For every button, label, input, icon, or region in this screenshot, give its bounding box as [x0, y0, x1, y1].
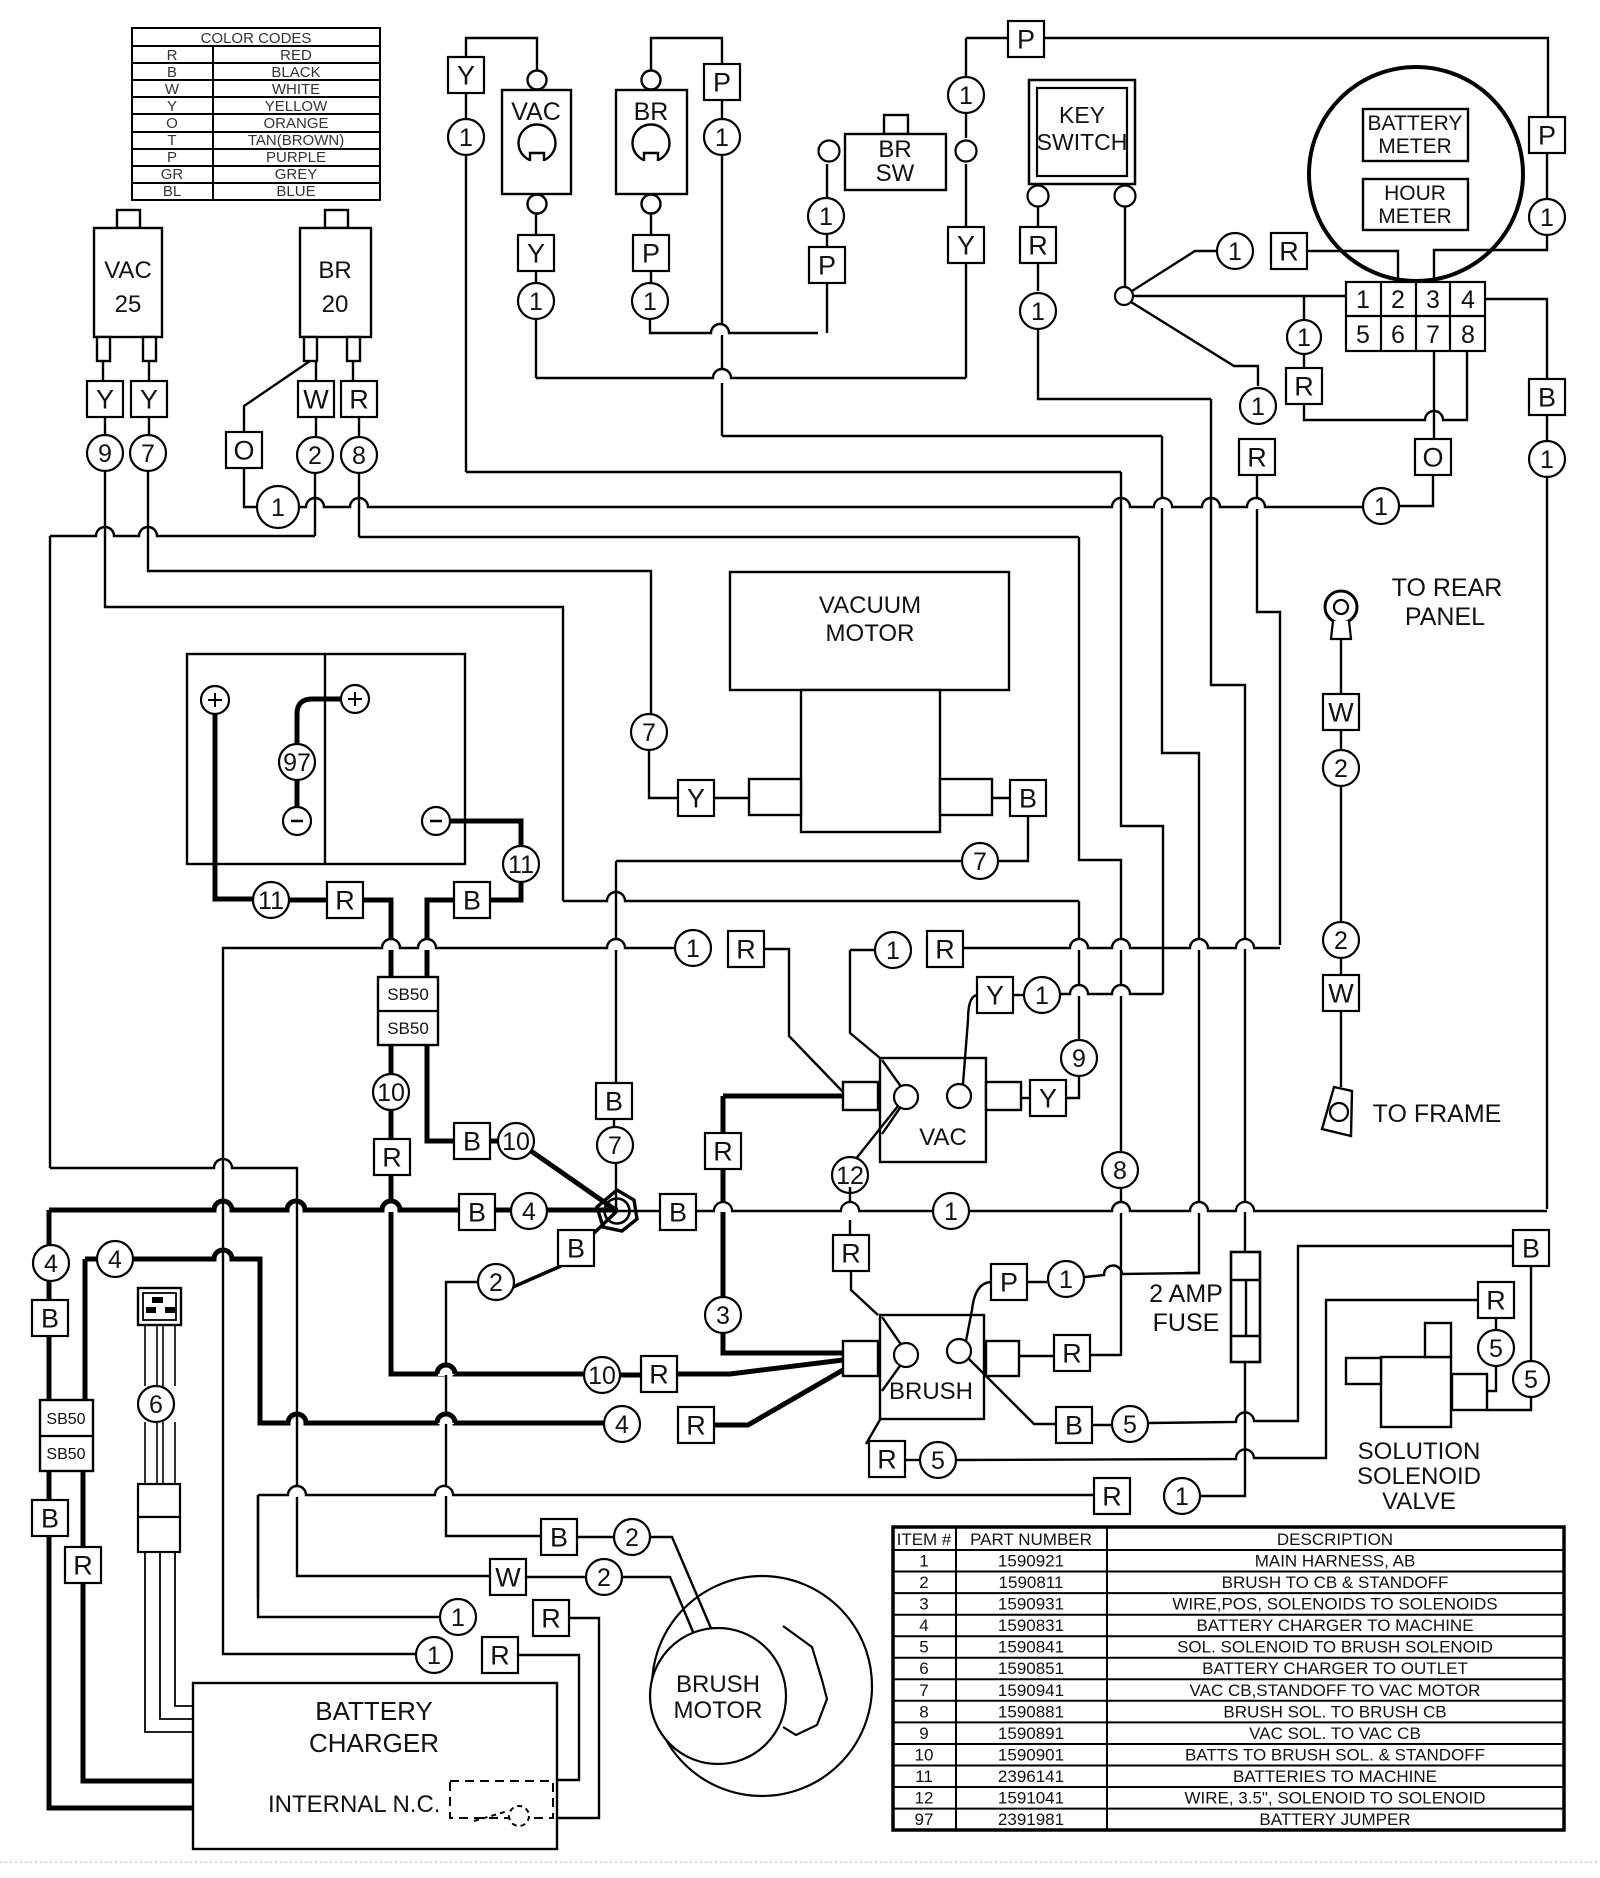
svg-text:Y: Y	[140, 384, 158, 414]
svg-text:BR: BR	[878, 136, 911, 163]
wire y378 vac rocker to y chain	[536, 369, 966, 378]
wire battery2 - right	[450, 821, 521, 846]
svg-text:Y: Y	[96, 384, 114, 414]
wire corner to vac box	[850, 950, 880, 1058]
wire W chain left vertical	[49, 536, 51, 1168]
svg-text:1: 1	[459, 124, 473, 152]
label B solution	[1513, 1230, 1549, 1266]
svg-text:MOTOR: MOTOR	[826, 620, 915, 647]
wire contact to B	[968, 1358, 1057, 1424]
label B left of node	[459, 1194, 495, 1230]
svg-text:1590941: 1590941	[998, 1681, 1064, 1700]
vac solenoid left flange	[843, 1082, 878, 1110]
svg-text:BRUSH: BRUSH	[889, 1378, 973, 1405]
svg-text:1: 1	[1540, 204, 1554, 232]
svg-text:BLACK: BLACK	[271, 64, 320, 81]
svg-text:B: B	[463, 1126, 481, 1156]
wire marker 8	[341, 437, 377, 473]
battery box	[187, 654, 465, 864]
svg-text:BRUSH SOL. TO BRUSH CB: BRUSH SOL. TO BRUSH CB	[1223, 1702, 1446, 1721]
node stud junction	[597, 1190, 637, 1231]
svg-text:1590931: 1590931	[998, 1595, 1064, 1614]
svg-text:1: 1	[1374, 493, 1388, 521]
svg-text:1590901: 1590901	[998, 1746, 1064, 1765]
svg-text:PART NUMBER: PART NUMBER	[970, 1530, 1092, 1549]
svg-text:B: B	[41, 1503, 59, 1533]
svg-text:1: 1	[886, 937, 900, 965]
svg-text:B: B	[468, 1197, 486, 1227]
svg-text:10: 10	[915, 1746, 934, 1765]
brush solenoid triangle lines	[882, 1317, 902, 1391]
vacuum motor box	[730, 572, 1009, 690]
wire	[826, 234, 828, 248]
svg-text:11: 11	[915, 1767, 933, 1786]
svg-text:COLOR CODES: COLOR CODES	[201, 30, 312, 47]
svg-text:2: 2	[489, 1269, 503, 1297]
wire marker 1	[257, 486, 299, 528]
svg-text:P: P	[713, 67, 731, 97]
svg-text:BL: BL	[163, 183, 181, 200]
wire marker 5	[1478, 1330, 1514, 1366]
charger cable	[144, 1325, 146, 1386]
svg-text:25: 25	[115, 291, 142, 318]
wire node to connector pin1	[1133, 295, 1346, 297]
wire	[714, 797, 749, 799]
wire marker 5	[1513, 1361, 1549, 1397]
svg-text:SB50: SB50	[46, 1411, 85, 1428]
wire thin bus y948 left	[225, 939, 675, 948]
svg-text:2: 2	[1391, 286, 1405, 314]
wire	[1027, 1281, 1047, 1283]
svg-text:W: W	[303, 384, 329, 414]
wire	[965, 113, 967, 138]
svg-text:W: W	[495, 1562, 521, 1592]
svg-text:1: 1	[715, 124, 729, 152]
wire Y chain y472	[466, 471, 1121, 473]
wire SB50 right leg up	[83, 1259, 88, 1400]
svg-text:10: 10	[502, 1128, 530, 1156]
BR SW tab	[884, 115, 908, 134]
svg-text:2: 2	[308, 442, 322, 470]
svg-text:1: 1	[1251, 393, 1265, 421]
wire P chain cross link	[650, 319, 818, 333]
wire P chain down	[721, 155, 723, 373]
wire B to 2	[513, 1266, 561, 1287]
label W	[1323, 694, 1359, 730]
svg-text:8: 8	[1113, 1157, 1127, 1185]
wire cable to charger	[145, 1552, 193, 1732]
svg-text:12: 12	[915, 1789, 934, 1808]
battery jumper wire	[297, 699, 341, 745]
wire 2 chain	[314, 473, 316, 536]
wire marker 2	[586, 1559, 622, 1595]
svg-text:B: B	[1019, 783, 1037, 813]
label B right of node	[660, 1194, 696, 1230]
battery meter	[1363, 109, 1468, 161]
wire Y chain down	[465, 155, 467, 472]
wire	[81, 1471, 86, 1547]
vac rocker top pin	[528, 71, 547, 90]
label B	[1056, 1407, 1092, 1443]
wire	[148, 417, 150, 436]
svg-text:4: 4	[919, 1616, 928, 1635]
label R battery	[327, 882, 363, 918]
wire pin8 leg to R chain	[1304, 351, 1467, 420]
svg-text:R: R	[649, 1359, 669, 1389]
svg-text:SB50: SB50	[387, 985, 429, 1004]
BR20 left terminal	[304, 337, 317, 361]
svg-text:2396141: 2396141	[998, 1767, 1064, 1786]
svg-text:10: 10	[377, 1079, 405, 1107]
label R 5 chain	[869, 1441, 905, 1477]
svg-text:1: 1	[1175, 1483, 1189, 1511]
wire BR rocker top to P box	[651, 38, 722, 70]
svg-text:P: P	[818, 250, 836, 280]
svg-text:B: B	[1538, 382, 1556, 412]
svg-text:1: 1	[1297, 324, 1311, 352]
svg-text:RED: RED	[280, 47, 312, 64]
wire	[465, 93, 467, 119]
label W	[490, 1559, 526, 1595]
svg-text:7: 7	[1426, 321, 1440, 349]
wire thick to vac flange	[723, 1094, 843, 1099]
spade terminal to frame	[1322, 1087, 1352, 1136]
circuit breaker BR 20	[300, 228, 371, 337]
svg-text:WHITE: WHITE	[272, 81, 320, 98]
wire	[965, 263, 967, 378]
svg-text:1: 1	[271, 494, 285, 522]
label B right edge	[1529, 379, 1565, 415]
wire contact to 12	[855, 1106, 898, 1160]
wire	[257, 1616, 259, 1618]
svg-text:VAC: VAC	[919, 1124, 967, 1151]
wire SB50 right leg	[427, 1045, 455, 1141]
node key switch junction	[1115, 287, 1133, 305]
vac solenoid left contact	[894, 1085, 918, 1109]
svg-text:BATTERY JUMPER: BATTERY JUMPER	[1259, 1810, 1410, 1829]
wire B to charger	[49, 1536, 193, 1808]
parts table	[893, 1527, 1564, 1830]
svg-text:1: 1	[1059, 1266, 1073, 1294]
svg-text:R: R	[1279, 236, 1299, 266]
wire marker 5	[1112, 1406, 1148, 1442]
wire 2 diagonal into motor	[623, 1577, 701, 1651]
svg-text:5: 5	[1489, 1335, 1503, 1363]
svg-text:10: 10	[588, 1362, 616, 1390]
svg-text:8: 8	[919, 1702, 928, 1721]
ring terminal to rear panel	[1325, 591, 1357, 639]
wire marker 1	[948, 77, 984, 113]
wire	[389, 1110, 394, 1140]
wire Y box to VAC rocker top	[466, 38, 537, 70]
svg-text:8: 8	[1461, 321, 1475, 349]
key switch right pin	[1115, 186, 1136, 207]
label B	[541, 1519, 577, 1555]
svg-text:1: 1	[451, 1604, 465, 1632]
svg-text:7: 7	[642, 719, 656, 747]
brush motor	[652, 1576, 872, 1796]
svg-text:B: B	[1522, 1233, 1540, 1263]
label B	[454, 1123, 490, 1159]
wire long right vertical	[1546, 477, 1548, 1209]
wire key R to fuse drop	[1038, 329, 1211, 399]
brush solenoid right flange	[986, 1341, 1019, 1376]
svg-text:BATTERY CHARGER TO MACHINE: BATTERY CHARGER TO MACHINE	[1196, 1616, 1473, 1635]
wire marker 1	[1287, 320, 1321, 354]
wire BR20 right leg to R	[352, 361, 354, 381]
wire marker 1	[808, 198, 844, 234]
wire marker 10	[373, 1074, 409, 1110]
wire key R to fuse	[1211, 399, 1245, 1252]
svg-text:1: 1	[959, 82, 973, 110]
wire marker 2	[478, 1264, 514, 1300]
svg-text:R: R	[1062, 1338, 1082, 1368]
label P	[704, 64, 740, 100]
svg-text:BATTERY CHARGER TO OUTLET: BATTERY CHARGER TO OUTLET	[1202, 1659, 1468, 1678]
wire marker 1	[448, 119, 484, 155]
wire	[1530, 1266, 1532, 1361]
wire long R line y1495	[258, 1486, 1095, 1495]
svg-text:1: 1	[1356, 286, 1370, 314]
label R below SB50	[374, 1139, 410, 1175]
svg-text:R: R	[382, 1142, 402, 1172]
wire 9 bus	[105, 471, 563, 901]
wire	[650, 214, 652, 237]
svg-text:MOTOR: MOTOR	[674, 1697, 763, 1724]
BR20 right terminal	[347, 337, 360, 361]
svg-text:R: R	[349, 384, 369, 414]
svg-text:R: R	[713, 1136, 733, 1166]
svg-text:B: B	[167, 64, 177, 81]
wire 3 to brush flange	[723, 1333, 843, 1353]
label Y (vac cb left)	[87, 381, 123, 417]
wire	[1092, 1424, 1111, 1426]
battery charger box	[193, 1683, 557, 1849]
wire	[1303, 297, 1305, 369]
wire pin7 leg to O	[1433, 351, 1435, 440]
svg-text:1590921: 1590921	[998, 1552, 1064, 1571]
wire	[295, 780, 300, 807]
svg-text:BRUSH TO CB & STANDOFF: BRUSH TO CB & STANDOFF	[1222, 1573, 1449, 1592]
wire	[526, 1576, 585, 1578]
wire	[47, 1281, 52, 1300]
wire B down	[999, 816, 1028, 861]
svg-text:2: 2	[1334, 755, 1348, 783]
wire Y1 line	[1060, 985, 1163, 994]
svg-text:MAIN HARNESS, AB: MAIN HARNESS, AB	[1255, 1552, 1416, 1571]
svg-text:TO REAR: TO REAR	[1392, 574, 1503, 602]
svg-text:9: 9	[98, 440, 112, 468]
svg-text:1: 1	[529, 288, 543, 316]
wire down to B	[615, 861, 617, 1084]
wire P chain right vertical	[1162, 436, 1199, 1273]
wire VAC25 right leg	[148, 361, 150, 381]
svg-text:B: B	[567, 1233, 585, 1263]
svg-text:SOLUTION: SOLUTION	[1358, 1438, 1481, 1465]
label B battery	[454, 882, 490, 918]
svg-text:4: 4	[108, 1246, 122, 1274]
wire O to 1	[244, 468, 257, 507]
wire marker 1	[675, 930, 711, 966]
svg-text:METER: METER	[1378, 205, 1452, 228]
svg-text:Y: Y	[167, 98, 177, 115]
svg-text:11: 11	[258, 887, 284, 915]
svg-text:GREY: GREY	[275, 166, 318, 183]
wire 8 chain	[358, 473, 360, 537]
svg-text:7: 7	[919, 1681, 928, 1700]
svg-text:2: 2	[1334, 927, 1348, 955]
meter gauge circle	[1309, 67, 1523, 281]
wire hump patches	[1155, 497, 1171, 508]
svg-text:R: R	[1294, 371, 1314, 401]
wire marker 1	[518, 283, 554, 319]
svg-text:BATTERY: BATTERY	[315, 1696, 433, 1726]
svg-text:1: 1	[819, 203, 833, 231]
key switch	[1029, 80, 1135, 184]
label R	[1271, 233, 1307, 269]
svg-text:TO FRAME: TO FRAME	[1373, 1100, 1502, 1128]
wire main O bus y507	[299, 498, 1362, 507]
brush solenoid left contact	[894, 1343, 918, 1367]
wire marker 1	[1240, 388, 1276, 424]
solenoid VAC	[880, 1058, 986, 1162]
wire	[1546, 152, 1548, 199]
svg-text:VACUUM: VACUUM	[819, 592, 921, 619]
vac rocker bottom pin	[528, 195, 547, 214]
battery2 negative terminal	[422, 807, 450, 835]
wire y948 right segment	[963, 939, 1280, 948]
wire	[47, 1336, 52, 1400]
svg-text:7: 7	[141, 440, 155, 468]
wire marker 1	[1164, 1478, 1200, 1514]
svg-text:WIRE,POS, SOLENOIDS TO SOLENOI: WIRE,POS, SOLENOIDS TO SOLENOIDS	[1172, 1595, 1497, 1614]
wire marker 1	[1217, 233, 1253, 269]
wire W chain to W box	[50, 1159, 490, 1576]
svg-text:1: 1	[1228, 238, 1242, 266]
label R	[65, 1547, 101, 1583]
svg-text:R: R	[1028, 230, 1048, 260]
svg-text:SB50: SB50	[46, 1446, 85, 1463]
svg-text:4: 4	[44, 1250, 58, 1278]
wire 3 chain down	[721, 1096, 726, 1134]
wire main positive bus	[49, 1201, 618, 1210]
wire	[850, 949, 874, 951]
wire R chain down to y948 line	[1257, 475, 1280, 945]
wire 8 chain down	[1079, 537, 1121, 1356]
wire marker 6	[138, 1386, 174, 1422]
wire marker 9	[1061, 1040, 1097, 1076]
svg-text:R: R	[686, 1410, 706, 1440]
svg-text:P: P	[167, 149, 177, 166]
wire to node	[615, 1163, 617, 1211]
svg-text:5: 5	[931, 1447, 945, 1475]
svg-text:O: O	[166, 115, 178, 132]
wire	[1340, 1011, 1342, 1087]
wire marker 7	[597, 1127, 633, 1163]
svg-text:97: 97	[915, 1810, 934, 1829]
wire marker 7	[130, 435, 166, 471]
wire marker 10	[498, 1123, 534, 1159]
SB50 connector pair left	[40, 1400, 93, 1471]
wire	[965, 164, 967, 228]
label R (br cb right)	[341, 381, 377, 417]
svg-text:R: R	[335, 885, 355, 915]
wire	[721, 99, 723, 119]
svg-text:4: 4	[615, 1411, 629, 1439]
wire	[650, 270, 652, 283]
svg-text:PURPLE: PURPLE	[266, 149, 326, 166]
wire marker 97	[279, 744, 315, 780]
svg-text:SWITCH: SWITCH	[1037, 129, 1128, 155]
vac solenoid right contact	[947, 1084, 971, 1108]
wire	[1090, 1354, 1121, 1356]
outlet plug	[138, 1288, 181, 1325]
wire	[315, 417, 317, 437]
svg-text:GR: GR	[161, 166, 184, 183]
battery2 positive terminal	[341, 685, 369, 713]
wire	[1340, 730, 1342, 750]
wire marker 2	[297, 437, 333, 473]
wire to 1	[258, 1495, 439, 1617]
wire marker 1	[1048, 1261, 1084, 1297]
label O	[226, 432, 262, 468]
svg-text:R: R	[877, 1444, 897, 1474]
br rocker bottom pin	[642, 195, 661, 214]
wire R to connector pin2	[1307, 251, 1398, 282]
svg-text:5: 5	[1524, 1366, 1538, 1394]
label R	[482, 1637, 518, 1673]
svg-text:P: P	[1538, 120, 1556, 150]
svg-text:3: 3	[919, 1595, 928, 1614]
label O right	[1415, 439, 1451, 475]
wire	[613, 1119, 615, 1127]
solenoid BRUSH	[880, 1315, 984, 1419]
wire 7 return	[616, 860, 961, 862]
label P right	[1529, 117, 1565, 153]
svg-text:5: 5	[1356, 321, 1370, 349]
svg-text:BLUE: BLUE	[276, 183, 315, 200]
wire 5 to solution R	[957, 1300, 1478, 1460]
svg-text:1590811: 1590811	[999, 1573, 1064, 1592]
svg-text:Y: Y	[986, 980, 1004, 1010]
wire marker 7	[962, 843, 998, 879]
svg-text:R: R	[1486, 1285, 1506, 1315]
wire	[389, 1045, 394, 1074]
svg-text:9: 9	[919, 1724, 928, 1743]
svg-text:VAC CB,STANDOFF TO VAC MOTOR: VAC CB,STANDOFF TO VAC MOTOR	[1190, 1681, 1481, 1700]
label W (br cb left)	[298, 381, 334, 417]
wire marker 2	[1323, 922, 1359, 958]
svg-text:P: P	[1000, 1267, 1018, 1297]
wire	[992, 797, 1011, 799]
wire contact to Y curve	[963, 995, 978, 1084]
svg-text:5: 5	[919, 1638, 928, 1657]
wire 7 to Y	[649, 750, 678, 798]
wire marker 2	[1323, 750, 1359, 786]
svg-text:VAC SOL. TO VAC CB: VAC SOL. TO VAC CB	[1249, 1724, 1421, 1743]
vac solenoid triangle contact lines	[882, 1060, 902, 1134]
svg-text:R: R	[490, 1640, 510, 1670]
svg-text:6: 6	[149, 1391, 163, 1419]
svg-text:BATTERY: BATTERY	[1368, 112, 1463, 135]
svg-text:FUSE: FUSE	[1153, 1309, 1220, 1337]
cable connector	[138, 1484, 180, 1517]
label Y	[448, 57, 484, 93]
svg-text:B: B	[463, 885, 481, 915]
svg-text:VAC: VAC	[104, 257, 152, 284]
svg-text:O: O	[1422, 442, 1443, 472]
label Y (vac cb right)	[131, 381, 167, 417]
